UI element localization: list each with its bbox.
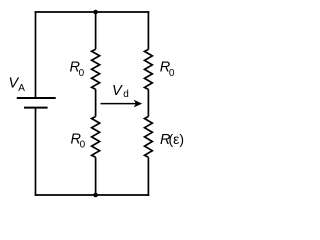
wire middle upper	[95, 12, 97, 49]
wire right upper	[147, 11, 149, 49]
svg-text:0: 0	[169, 68, 175, 79]
wire left upper (VA+ to battery)	[35, 11, 37, 98]
Vd arrowhead	[134, 100, 143, 108]
resistor R(e) right-bottom	[145, 117, 153, 158]
svg-text:0: 0	[79, 68, 85, 79]
wire right mid	[147, 89, 149, 116]
wire middle lower	[95, 157, 97, 195]
wire right lower	[147, 157, 149, 196]
wire middle mid	[95, 89, 97, 116]
wire top (node between VA+, R0 branches)	[35, 11, 150, 13]
svg-text:V: V	[112, 83, 123, 99]
node junction dot top	[93, 10, 98, 15]
svg-text:(ε): (ε)	[169, 131, 185, 147]
svg-text:d: d	[123, 89, 129, 100]
wire bottom (ground return)	[35, 194, 150, 196]
battery VA positive plate (long)	[17, 97, 56, 99]
wire left lower (battery to bottom node)	[35, 108, 37, 196]
svg-text:A: A	[18, 83, 25, 94]
Vd arrow shaft	[101, 103, 138, 105]
resistor R0 right-top	[145, 49, 153, 89]
battery VA negative plate (short)	[24, 107, 48, 109]
resistor R0 middle-top	[92, 49, 100, 89]
node junction dot bottom	[93, 193, 98, 198]
svg-text:0: 0	[80, 140, 86, 151]
resistor R0 middle-bottom	[92, 117, 100, 158]
